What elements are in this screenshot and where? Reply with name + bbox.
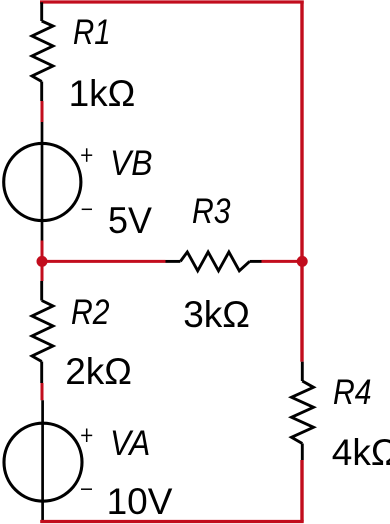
resistor R3 bbox=[166, 252, 262, 271]
wire VB to node A bbox=[41, 241, 44, 282]
label R3 bbox=[192, 194, 230, 229]
wire R2 to VA bbox=[41, 383, 44, 400]
label 1kΩ value bbox=[69, 75, 136, 112]
resistor R4 bbox=[292, 362, 314, 460]
wire right rail lower bbox=[300, 460, 303, 522]
wire node A to R3 bbox=[42, 260, 166, 263]
label R4 bbox=[333, 375, 371, 410]
wire bottom rail bbox=[40, 520, 304, 523]
voltage source VB bbox=[4, 122, 93, 241]
label 10V value bbox=[107, 483, 173, 520]
wire R1 to VB bbox=[41, 101, 44, 122]
wire right rail upper bbox=[300, 1, 303, 362]
label 5V value bbox=[108, 202, 152, 239]
label 4kΩ value bbox=[332, 434, 390, 471]
label 3kΩ value bbox=[183, 296, 250, 333]
wire R3 to node B bbox=[262, 260, 303, 263]
label VA bbox=[110, 426, 150, 461]
node A junction dot bbox=[37, 256, 48, 267]
resistor R2 bbox=[32, 281, 53, 383]
label VB bbox=[110, 146, 152, 181]
resistor R1 bbox=[32, 2, 53, 101]
node B junction dot bbox=[297, 256, 308, 267]
label 2kΩ value bbox=[65, 353, 132, 390]
label R1 bbox=[73, 15, 111, 50]
wire top rail bbox=[40, 0, 304, 3]
label R2 bbox=[71, 295, 109, 330]
voltage source VA bbox=[4, 400, 92, 521]
